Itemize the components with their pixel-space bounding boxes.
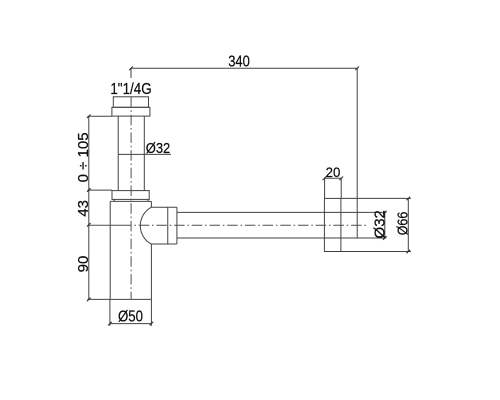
svg-text:Ø66: Ø66	[395, 212, 412, 236]
svg-text:Ø32: Ø32	[371, 210, 388, 238]
svg-text:90: 90	[75, 256, 92, 273]
svg-text:340: 340	[228, 54, 250, 71]
svg-text:Ø32: Ø32	[146, 140, 171, 157]
svg-text:1"1/4G: 1"1/4G	[110, 81, 151, 98]
svg-text:20: 20	[326, 164, 341, 180]
svg-text:Ø50: Ø50	[118, 309, 143, 326]
svg-text:0 ÷ 105: 0 ÷ 105	[75, 132, 92, 182]
svg-text:43: 43	[75, 200, 92, 217]
